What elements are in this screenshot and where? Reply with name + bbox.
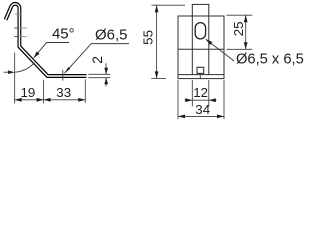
bracket profile (hook, strip, 45-degree bend, flat bar) [6, 4, 87, 76]
dimension 34 [177, 80, 179, 119]
svg-text:55: 55 [140, 30, 155, 45]
svg-text:45°: 45° [52, 26, 75, 43]
svg-text:2: 2 [89, 56, 105, 64]
internal vertical edges [191, 16, 193, 75]
svg-text:25: 25 [231, 21, 246, 36]
extension lines 19 / 33 [14, 53, 16, 104]
svg-text:12: 12 [193, 85, 208, 100]
bend marks on strip [15, 13, 21, 15]
dimension line 19 / 33 [15, 99, 86, 101]
svg-text:Ø6,5 x 6,5: Ø6,5 x 6,5 [236, 52, 304, 68]
top tab [192, 4, 209, 16]
small square hole [197, 67, 204, 73]
hole centerline in flat bar [62, 70, 64, 81]
clamp body outline [178, 16, 224, 79]
internal horizontal edges [178, 48, 224, 50]
svg-text:33: 33 [56, 85, 71, 100]
slot size label with leader [206, 39, 234, 61]
thickness dimension 2 [88, 73, 110, 75]
angle dimension arc [15, 63, 35, 72]
dimension 12 [191, 80, 193, 107]
dimension 55 [152, 4, 186, 6]
tick below square hole [199, 73, 201, 78]
svg-text:Ø6,5: Ø6,5 [95, 27, 128, 44]
svg-text:19: 19 [21, 85, 36, 100]
dimension 25 [227, 14, 253, 16]
svg-text:34: 34 [195, 102, 210, 117]
oblong slot [195, 23, 205, 39]
